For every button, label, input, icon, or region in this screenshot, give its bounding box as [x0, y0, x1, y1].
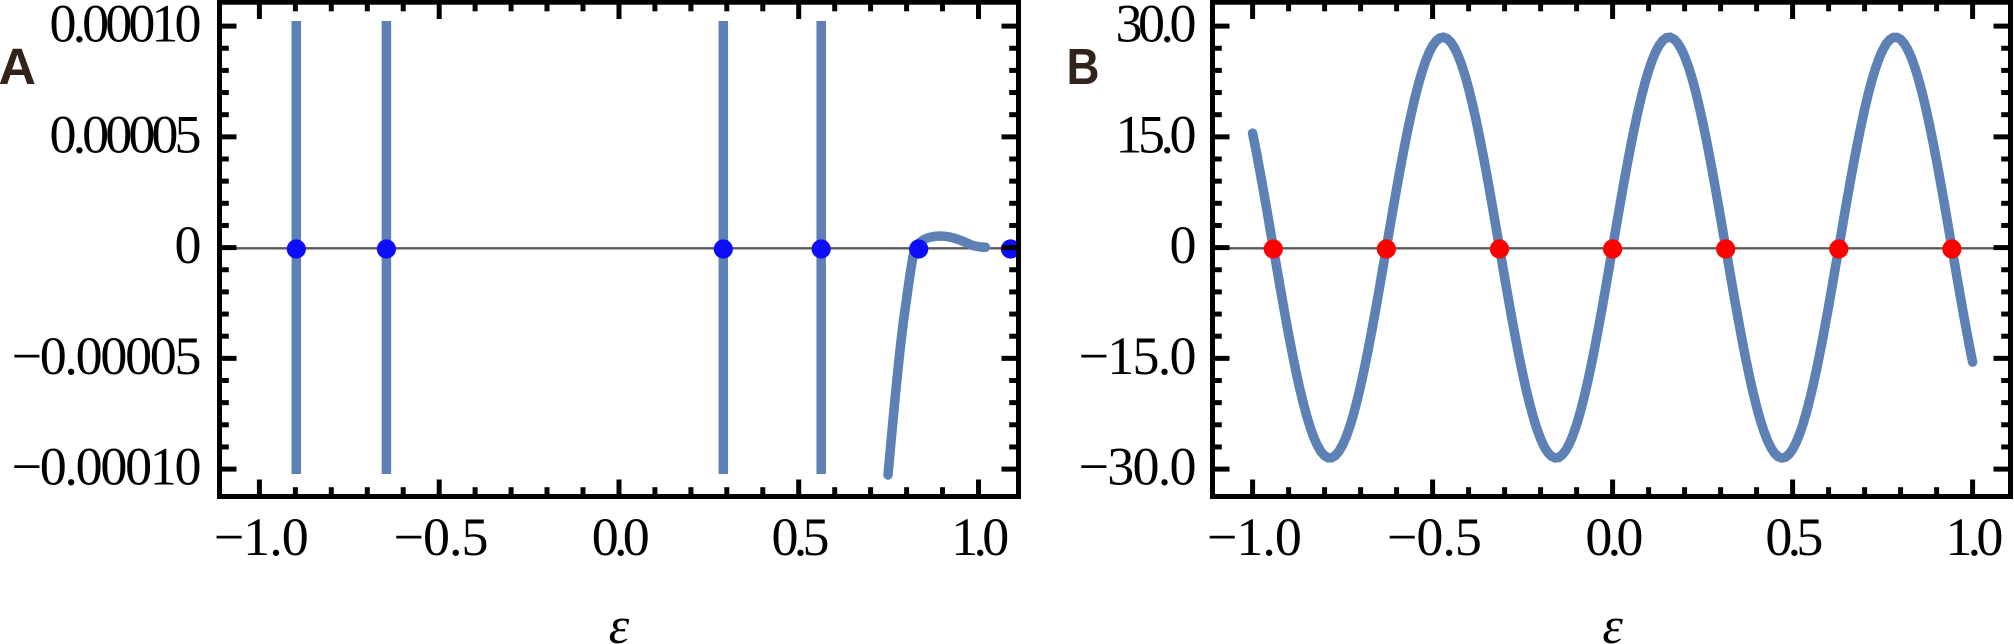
svg-text:−0.5: −0.5 [1387, 507, 1482, 567]
svg-text:−1.0: −1.0 [214, 507, 309, 567]
svg-text:−0.00005: −0.00005 [12, 326, 202, 386]
svg-text:−15.0: −15.0 [1079, 326, 1197, 386]
svg-text:−0.00010: −0.00010 [12, 437, 202, 497]
svg-text:−1.0: −1.0 [1207, 507, 1302, 567]
svg-text:0.5: 0.5 [1765, 507, 1823, 567]
svg-text:−0.5: −0.5 [394, 507, 489, 567]
svg-text:0.5: 0.5 [772, 507, 830, 567]
svg-text:0.00005: 0.00005 [50, 104, 202, 164]
svg-text:0: 0 [1170, 215, 1197, 275]
svg-text:A: A [0, 38, 36, 95]
svg-text:0.0: 0.0 [592, 507, 650, 567]
svg-text:0.0: 0.0 [1585, 507, 1643, 567]
svg-text:1.0: 1.0 [951, 507, 1009, 567]
svg-text:1.0: 1.0 [1945, 507, 2003, 567]
svg-text:ε: ε [609, 598, 630, 644]
svg-text:15.0: 15.0 [1116, 104, 1197, 164]
svg-text:−30.0: −30.0 [1079, 437, 1197, 497]
svg-text:30.0: 30.0 [1116, 0, 1197, 54]
svg-text:0.00010: 0.00010 [50, 0, 202, 54]
svg-text:0: 0 [175, 215, 202, 275]
svg-text:B: B [1067, 38, 1100, 95]
svg-text:ε: ε [1602, 598, 1623, 644]
